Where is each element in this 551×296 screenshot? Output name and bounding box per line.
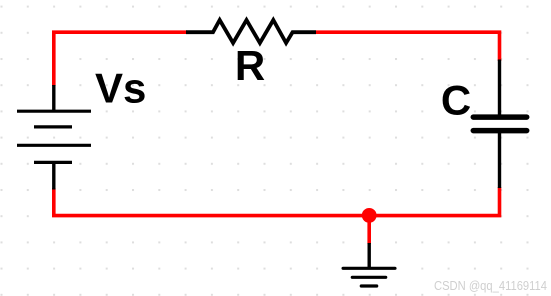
resistor R bbox=[186, 20, 316, 43]
wire ground stub bbox=[367, 216, 371, 244]
battery Vs (voltage source) bbox=[17, 85, 91, 190]
svg-text:Vs: Vs bbox=[95, 64, 146, 111]
svg-text:C: C bbox=[441, 77, 471, 124]
svg-text:CSDN @qq_41169114: CSDN @qq_41169114 bbox=[434, 278, 547, 293]
svg-text:R: R bbox=[235, 42, 265, 89]
wire top-right (node R to C top) bbox=[316, 32, 500, 61]
ground bbox=[343, 243, 395, 286]
capacitor C bbox=[473, 60, 526, 189]
wire top-left (node Vs+ to R) bbox=[54, 32, 187, 86]
wire bottom (ground net: C bottom to Vs-) bbox=[54, 187, 500, 216]
node junction dot bbox=[362, 208, 377, 223]
